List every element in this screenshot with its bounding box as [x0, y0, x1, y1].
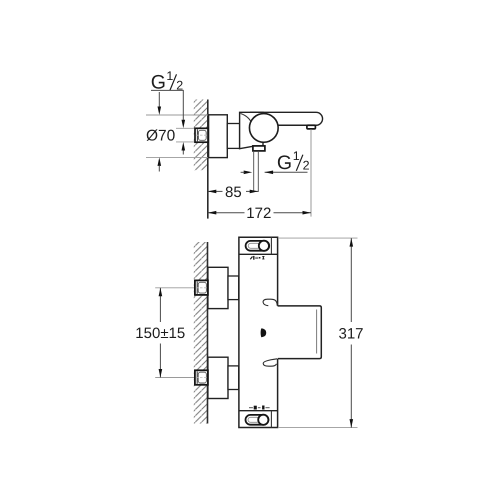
arrow left at wall: [208, 211, 217, 215]
bottom handle inner detail: [248, 417, 259, 422]
spout bottom hook curl: [263, 359, 277, 366]
body shoulder curve: [241, 114, 253, 125]
shower outlet collar: [253, 146, 265, 151]
top cap separator line: [239, 253, 278, 255]
cartridge dome circle: [249, 114, 278, 143]
faucet body: [240, 112, 263, 148]
centerline upper connection: [155, 287, 208, 289]
bottom cap separator line: [239, 410, 278, 412]
arrow left at wall: [208, 190, 217, 194]
upper escutcheon: [208, 267, 228, 308]
neck between flange and body: [227, 124, 239, 149]
extension line 317 top: [278, 237, 358, 239]
svg-text:172: 172: [246, 205, 271, 222]
arrow right at spout tip: [303, 211, 312, 215]
shaft of right-pointing arrow: [241, 171, 245, 173]
extension line Ø70 top: [146, 114, 209, 116]
spout block: [278, 306, 322, 359]
svg-text:Ø70: Ø70: [146, 128, 176, 145]
extension line from nozzle: [310, 129, 312, 216]
upper neck: [228, 276, 239, 300]
extension line G1/2 fitting bottom: [176, 141, 196, 143]
extension line G1/2 fitting top: [176, 127, 196, 129]
spout block inner line: [316, 310, 318, 354]
arrow up 317: [350, 238, 354, 247]
top handle capsule: [246, 241, 270, 251]
lower escutcheon: [208, 357, 228, 398]
dimension 85 line: [208, 190, 223, 192]
top icon row: [250, 256, 264, 260]
arrow up at upper centerline: [159, 288, 163, 297]
svg-text:1: 1: [293, 149, 300, 163]
spout (rounded right end): [250, 112, 323, 125]
leader G1/2 top: [151, 90, 183, 120]
svg-text:2: 2: [303, 159, 310, 173]
wall hatching (top view): [194, 100, 208, 171]
dimension 150±15 line lower: [159, 344, 161, 378]
lower neck: [228, 366, 239, 390]
dimension Ø70 lower shaft: [158, 166, 160, 172]
upper hex union fitting: [195, 280, 208, 295]
bottom handle knob circle: [258, 415, 268, 425]
arrow down to fitting top: [182, 120, 186, 129]
bottom icon row: [249, 406, 270, 410]
temperature button blob: [261, 328, 267, 337]
bottom cap inner vertical line: [270, 411, 272, 428]
arrow right toward pipe: [244, 171, 253, 175]
svg-text:150±15: 150±15: [135, 325, 185, 342]
svg-text:1: 1: [166, 69, 173, 83]
wall line (top view): [207, 100, 209, 219]
lower hex union fitting: [195, 370, 208, 385]
dimension 317 line lower: [350, 345, 352, 428]
shower outlet pipe line right: [257, 151, 259, 192]
dimension 172 line: [208, 212, 245, 214]
label G1/2 (outlet): [277, 149, 310, 174]
wall flange escutcheon Ø70: [209, 115, 228, 158]
leader line G1/2 outlet: [265, 171, 308, 173]
arrow up to Ø70 bottom: [158, 157, 162, 166]
arrow left toward pipe: [265, 171, 274, 175]
svg-text:317: 317: [339, 326, 364, 343]
aerator nozzle: [307, 125, 316, 129]
mixer body: [239, 237, 278, 427]
wall line (bottom view): [207, 242, 209, 424]
label G1/2 (top): [151, 69, 183, 94]
hex union fitting G1/2 (in wall): [195, 128, 208, 142]
shower outlet pipe line left: [253, 151, 255, 192]
centerline lower connection: [155, 377, 208, 379]
bottom handle capsule: [246, 415, 269, 425]
arrow right at outlet axis: [250, 190, 259, 194]
dimension 317 line upper: [350, 238, 352, 322]
extension line 317 bottom: [278, 427, 358, 429]
arrow down at lower centerline: [159, 369, 163, 378]
dimension 150±15 line upper: [159, 288, 161, 322]
top handle inner detail: [248, 243, 260, 248]
arrow up to fitting bottom: [182, 142, 186, 151]
wall hatching (bottom view): [194, 242, 208, 424]
top cap inner vertical line: [270, 237, 272, 254]
extension line Ø70 bottom: [146, 156, 209, 158]
spout top hook curl: [263, 299, 277, 306]
arrow down to Ø70 top: [158, 107, 162, 116]
arrow down 317: [350, 419, 354, 428]
shaft below fitting arrow: [182, 151, 184, 155]
svg-text:85: 85: [225, 184, 242, 201]
top handle knob circle: [259, 241, 269, 251]
svg-text:G: G: [277, 152, 292, 174]
dimension Ø70 upper shaft: [158, 92, 160, 107]
